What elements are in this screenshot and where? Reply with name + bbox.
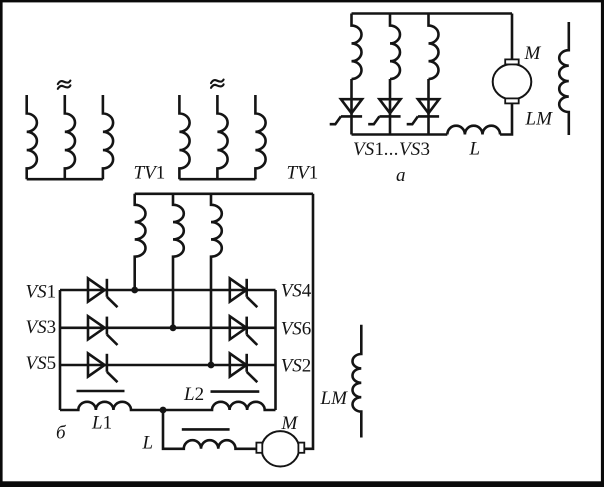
- inductor La2 (anode coil, branch 2): [390, 14, 400, 80]
- wire: bridge right bus: [274, 290, 277, 410]
- reactor LM (excitation winding, circuit a): [559, 22, 569, 135]
- svg-text:L: L: [469, 139, 481, 160]
- AC source symbol (group 2): [211, 80, 224, 88]
- svg-text:VS1...VS3: VS1...VS3: [353, 139, 430, 160]
- reactor LM (excitation winding, circuit b): [353, 325, 362, 438]
- node: junction dot phase 3: [208, 362, 215, 369]
- inductor L1 core bar: [77, 390, 125, 393]
- thyristor VS1 (circuit a): [330, 99, 362, 124]
- wire: bridge row 2: [60, 326, 276, 329]
- wire: TV1 secondary top rail: [135, 193, 313, 196]
- svg-text:б: б: [56, 422, 67, 443]
- svg-text:LM: LM: [525, 109, 554, 130]
- node: center junction dot: [160, 407, 167, 414]
- wire: bridge row 3: [60, 364, 276, 367]
- thyristor VS2: [230, 353, 257, 382]
- svg-text:VS3: VS3: [26, 317, 57, 338]
- AC source symbol (group 1): [58, 81, 71, 89]
- svg-text:M: M: [281, 413, 299, 434]
- inductor L2 core bar: [211, 390, 260, 393]
- thyristor VS3: [88, 316, 118, 345]
- wire: branch 2 vertical through thyristor: [389, 79, 392, 135]
- node: junction dot phase 2: [170, 324, 177, 331]
- svg-text:L1: L1: [91, 413, 112, 434]
- wire: right drop from secondary rail to motor: [304, 194, 313, 449]
- transformer TV1 primary winding g2-1: [179, 95, 189, 179]
- transformer TV1 primary winding g1-2: [65, 95, 75, 179]
- wire: TV1 primary common bar g2: [179, 178, 255, 181]
- wire: bridge row 1: [60, 289, 276, 292]
- svg-text:VS2: VS2: [281, 355, 312, 376]
- svg-text:TV1: TV1: [287, 163, 319, 184]
- wire: bottom rail to motor: [500, 104, 512, 135]
- svg-text:а: а: [396, 165, 406, 186]
- inductor La3 (anode coil, branch 3): [429, 14, 439, 80]
- wire: circuit a top rail: [352, 12, 513, 15]
- wire: center tap down and L reactor: [163, 410, 256, 449]
- transformer TV1 primary winding g1-3: [103, 95, 113, 179]
- svg-text:VS4: VS4: [281, 280, 312, 301]
- thyristor VS5: [88, 353, 118, 382]
- wire: circuit a bottom rail: [352, 133, 448, 136]
- svg-text:M: M: [524, 43, 542, 64]
- wire: branch 1 vertical through thyristor: [350, 79, 353, 135]
- transformer TV1 primary winding g2-3: [255, 95, 265, 179]
- wire: branch 3 vertical through thyristor: [427, 79, 430, 135]
- inductor L core bar: [182, 428, 230, 431]
- transformer TV1 secondary winding 1: [135, 194, 146, 290]
- motor M (circuit a): [493, 59, 532, 103]
- node: junction dot phase 1: [131, 287, 138, 294]
- transformer TV1 secondary winding 3: [211, 194, 222, 365]
- wire: bridge bottom rail with L1 and L2: [60, 402, 276, 410]
- svg-text:LM: LM: [320, 388, 349, 409]
- thyristor VS6: [230, 316, 257, 345]
- thyristor VS2 (circuit a): [368, 99, 400, 124]
- svg-text:L2: L2: [183, 384, 204, 405]
- transformer TV1 primary winding g2-2: [217, 95, 227, 179]
- svg-text:VS5: VS5: [26, 353, 57, 374]
- thyristor VS1: [88, 278, 118, 307]
- inductor La1 (anode coil, branch 1): [352, 14, 362, 80]
- wire: bridge left bus: [59, 290, 62, 410]
- svg-text:L: L: [142, 432, 154, 453]
- inductor L (smoothing reactor, circuit a): [447, 126, 500, 135]
- thyristor VS4: [230, 278, 257, 307]
- transformer TV1 primary winding g1-1: [27, 95, 37, 179]
- svg-text:VS6: VS6: [281, 318, 312, 339]
- wire: motor M top feed: [511, 14, 514, 60]
- svg-text:TV1: TV1: [134, 163, 166, 184]
- motor M (circuit b): [256, 431, 304, 466]
- svg-text:VS1: VS1: [26, 281, 57, 302]
- wire: TV1 primary common bar g1: [27, 178, 103, 181]
- thyristor VS3 (circuit a): [407, 99, 439, 124]
- transformer TV1 secondary winding 2: [173, 194, 184, 328]
